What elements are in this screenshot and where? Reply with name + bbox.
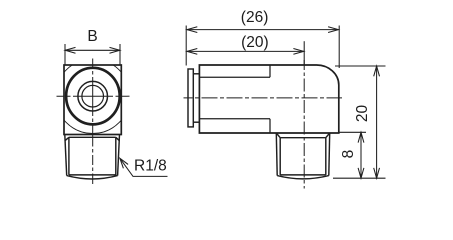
svg-text:B: B [87,28,97,45]
svg-text:R1/8: R1/8 [134,158,167,175]
svg-text:(26): (26) [241,9,269,26]
svg-text:8: 8 [340,150,357,159]
svg-text:20: 20 [354,105,371,123]
svg-text:(20): (20) [241,34,269,51]
